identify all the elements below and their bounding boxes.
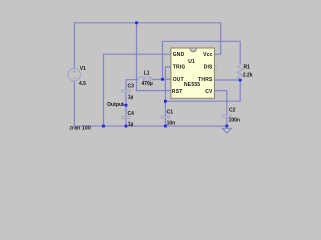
component value labels <box>79 65 253 128</box>
svg-text:V1: V1 <box>80 66 86 72</box>
svg-text:10n: 10n <box>167 121 176 127</box>
svg-text:C2: C2 <box>229 108 236 114</box>
node top rail / RST junction <box>135 21 138 24</box>
wire R1 bottom loop to C1 node <box>165 80 240 101</box>
svg-text:1µ: 1µ <box>128 122 134 128</box>
wire V1 bottom to ground rail <box>74 81 226 126</box>
wire GND pin to ground <box>104 54 171 126</box>
node label Output <box>107 102 125 108</box>
svg-text:2.2k: 2.2k <box>243 73 253 79</box>
svg-text:RST: RST <box>172 89 183 95</box>
capacitor C3 <box>121 90 131 92</box>
svg-text:U1: U1 <box>188 59 195 65</box>
svg-text:470µ: 470µ <box>142 81 153 87</box>
svg-text:1µ: 1µ <box>128 95 134 101</box>
svg-text:C1: C1 <box>167 110 174 116</box>
wire C3 to C4 (Output node) <box>125 92 127 117</box>
capacitor C1 <box>160 116 170 118</box>
capacitor C2 <box>222 115 232 117</box>
svg-text:TRIG: TRIG <box>173 65 186 71</box>
svg-text:100n: 100n <box>229 117 240 123</box>
node TRIG/THRS/C1 <box>164 100 167 103</box>
pin stub DIS <box>215 65 217 67</box>
svg-text:4.5: 4.5 <box>79 81 86 87</box>
inductor L1 <box>138 77 152 81</box>
svg-text:CV: CV <box>205 89 213 95</box>
U1 pin labels <box>172 52 213 95</box>
wire OUT loop to R1 <box>163 41 241 79</box>
wire C2 bottom <box>226 117 228 127</box>
wire CV to C2 <box>214 91 226 115</box>
svg-text:C3: C3 <box>128 84 135 90</box>
node gnd rail / GND column <box>102 125 105 128</box>
node gnd rail / C4 <box>125 125 128 128</box>
wire L1 left lead <box>126 80 138 90</box>
node Output (C3/C4) <box>125 104 128 107</box>
svg-text:NE555: NE555 <box>184 82 200 88</box>
ground <box>222 128 231 133</box>
svg-text:DIS: DIS <box>204 65 213 71</box>
node gnd rail / C2 / ground <box>225 125 228 128</box>
node gnd rail / C1 <box>164 125 167 128</box>
wire OUT stub <box>163 78 171 80</box>
svg-text:THRS: THRS <box>198 77 213 83</box>
wire TRIG riser <box>165 67 171 101</box>
svg-text:R1: R1 <box>244 65 251 71</box>
svg-text:Output: Output <box>107 102 124 108</box>
wire C4 bottom <box>125 119 127 126</box>
wire top rail <box>74 23 220 69</box>
capacitor C4 <box>121 117 131 119</box>
wire THRS to R1 bottom <box>214 79 240 81</box>
wire L1 right lead <box>152 79 162 81</box>
resistor R1 <box>238 64 243 79</box>
wire C1 bottom <box>164 118 166 126</box>
voltage source V1 <box>68 69 80 81</box>
wire C1 top <box>164 101 166 116</box>
svg-text:OUT: OUT <box>173 77 184 83</box>
node R1/THRS <box>239 79 242 82</box>
svg-text:L1: L1 <box>144 71 150 77</box>
node OUT / L1 junction <box>161 78 164 81</box>
svg-text:.tran 100: .tran 100 <box>69 126 91 132</box>
wire RST riser <box>137 23 171 91</box>
svg-text:GND: GND <box>173 52 185 58</box>
svg-text:Vcc: Vcc <box>203 52 213 58</box>
svg-text:C4: C4 <box>128 111 135 117</box>
op-amp U1 (NE555 body) <box>171 48 217 98</box>
